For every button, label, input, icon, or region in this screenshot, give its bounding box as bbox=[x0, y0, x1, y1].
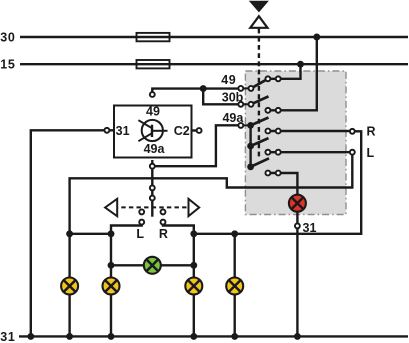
pole connector circles bbox=[150, 185, 155, 190]
junction dots bbox=[313, 34, 320, 41]
wire: turn-switch L contact to left bus bbox=[111, 222, 142, 234]
transistor emitter lead bbox=[138, 133, 152, 141]
relay terminal 49 bbox=[150, 92, 155, 97]
turn-signal pilot lamp (green) bbox=[144, 257, 161, 274]
wire: relay terminal C2 stub bbox=[192, 129, 200, 131]
wire: switch row 5 to hazard pilot lamp bbox=[268, 173, 298, 203]
wire: branch to switch terminal 30b bbox=[203, 89, 241, 105]
switch arm row 2 (open) bbox=[251, 96, 269, 104]
svg-text:C2: C2 bbox=[174, 124, 190, 138]
wire: relay terminal 49a to switch terminal 49a bbox=[152, 125, 241, 166]
svg-text:L: L bbox=[136, 227, 144, 241]
terminal R bbox=[350, 129, 355, 134]
wire: lamp D drop bbox=[233, 234, 235, 337]
wire: line 15 to switch contact row 49 bbox=[268, 64, 301, 79]
wire: left lamp feed from L terminal bbox=[70, 152, 353, 234]
switch arm row 3 (open) bbox=[251, 118, 269, 126]
svg-text:31: 31 bbox=[303, 221, 317, 235]
wire: lamp A drop bbox=[68, 234, 70, 337]
svg-text:49: 49 bbox=[146, 104, 160, 118]
svg-text:49: 49 bbox=[221, 73, 236, 87]
wire: switch row 4 to terminal L bbox=[268, 151, 352, 153]
hazard pilot lamp (red) bbox=[289, 195, 306, 212]
relay terminal 49a bbox=[150, 164, 155, 169]
switch pivot bar bbox=[249, 125, 251, 166]
indicator lamp C (front right, yellow) bbox=[185, 278, 202, 295]
svg-text:R: R bbox=[367, 125, 376, 139]
transistor base lead bbox=[152, 130, 168, 132]
indicator lamp A (front left, yellow) bbox=[61, 278, 78, 295]
wire: line 30 to switch contact row 30b bbox=[268, 37, 317, 110]
pilot lamp ground terminal 31 bbox=[295, 223, 300, 228]
hazard switch unit enclosure (gray box) bbox=[245, 71, 346, 215]
bus line 15 bbox=[20, 63, 408, 65]
svg-text:49a: 49a bbox=[144, 142, 166, 156]
svg-text:49a: 49a bbox=[222, 111, 244, 125]
switch pivot dots bbox=[247, 122, 254, 129]
switch arm row 4 (open) bbox=[251, 138, 269, 146]
indicator lamp D (rear right, yellow) bbox=[226, 278, 243, 295]
indicator lamp B (rear left, yellow) bbox=[103, 278, 120, 295]
transistor base bar bbox=[151, 125, 153, 137]
turn-signal lever link (dashed) bbox=[106, 206, 198, 208]
wire: hazard pilot lamp to ground bus bbox=[296, 203, 298, 336]
wire: lamp B drop bbox=[110, 234, 112, 337]
wire: turn-switch R contact to right bus bbox=[163, 222, 194, 234]
terminal L bbox=[350, 150, 355, 155]
hazard warning symbol: open triangle bbox=[250, 16, 267, 28]
contact pair row 1 bbox=[265, 76, 270, 81]
transistor symbol circle bbox=[142, 120, 163, 141]
ground bus line 31 bbox=[19, 335, 408, 337]
switch arm row 5 (open) bbox=[251, 158, 269, 167]
wire: pilot lamp bridge bbox=[111, 264, 194, 266]
wire: relay terminal 49a down to turn-switch pole bbox=[151, 160, 153, 217]
relay terminal 31 bbox=[104, 128, 109, 133]
contact pair row 5 bbox=[265, 171, 270, 176]
switch arm row 1 (closed) bbox=[251, 79, 268, 89]
wire: lamp C drop bbox=[193, 234, 195, 337]
svg-text:31: 31 bbox=[116, 124, 130, 138]
switch row links to pivots bbox=[241, 87, 251, 89]
svg-text:R: R bbox=[159, 227, 168, 241]
hazard actuating link (dashed) bbox=[258, 29, 260, 158]
transistor collector lead bbox=[138, 120, 152, 128]
fuse F2 on line 15 bbox=[137, 60, 170, 68]
turn-switch L contacts bbox=[139, 209, 144, 214]
wire: left lamp bus bbox=[70, 233, 111, 235]
contact pair row 2 bbox=[265, 108, 270, 113]
bus line 30 bbox=[20, 36, 408, 38]
svg-text:L: L bbox=[367, 146, 375, 160]
lever arrow right bbox=[189, 199, 200, 216]
svg-text:31: 31 bbox=[0, 330, 15, 343]
switch terminal 49 bbox=[238, 86, 243, 91]
fuse F1 on line 30 bbox=[137, 33, 170, 41]
switch terminal 30b bbox=[238, 102, 243, 107]
hazard warning symbol: filled triangle bbox=[249, 1, 269, 13]
contact pair row 4 bbox=[265, 150, 270, 155]
wire: switch row 3 to terminal R and right lamp bus bbox=[194, 131, 361, 234]
turn-switch R contacts bbox=[161, 209, 166, 214]
wire: relay terminal 31 to ground bus bbox=[31, 130, 114, 336]
svg-text:30b: 30b bbox=[222, 90, 244, 104]
flasher relay box bbox=[114, 106, 192, 158]
switch terminal 49a bbox=[238, 123, 243, 128]
wire: relay terminal 49 to switch terminal 49 bbox=[152, 89, 241, 96]
relay terminal C2 bbox=[197, 128, 202, 133]
switch pivot row 2 bbox=[249, 102, 254, 107]
contact pair row 3 bbox=[265, 129, 270, 134]
svg-text:30: 30 bbox=[0, 31, 15, 45]
lever arrow left bbox=[105, 199, 117, 216]
svg-text:15: 15 bbox=[0, 58, 15, 72]
switch pivot row 1 bbox=[249, 86, 254, 91]
